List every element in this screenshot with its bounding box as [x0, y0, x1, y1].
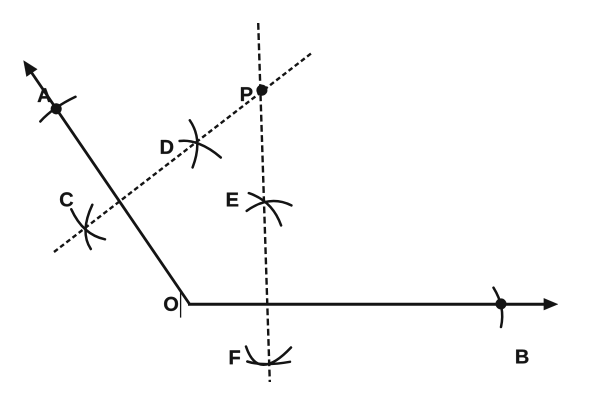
dashed diagonal line through C, D, P: [54, 52, 313, 252]
arc 2 at D (horizontal compass arc): [180, 141, 221, 158]
point A dot: [51, 103, 62, 114]
arc 1 at D (vertical compass arc): [190, 120, 198, 167]
ray OA (solid line from O up-left): [32, 73, 190, 305]
dashed vertical line through P, E, F: [258, 23, 270, 382]
label O: [164, 297, 178, 311]
arrowhead of ray OA: [24, 61, 38, 77]
label D: [161, 140, 173, 154]
label E: [227, 193, 238, 207]
label P: [241, 87, 252, 101]
label F: [230, 350, 240, 364]
caret tick at O: [180, 292, 182, 318]
arc 1 at E (upper-left to lower-right compass arc): [249, 193, 281, 225]
arrowhead of ray OB: [544, 298, 558, 310]
point on ray OB dot: [496, 299, 507, 310]
point P dot: [257, 85, 268, 96]
ray OB (solid horizontal line from O to right): [188, 303, 546, 306]
arc at A (compass arc crossing ray OA): [40, 97, 75, 122]
label B: [516, 350, 528, 364]
label A: [38, 88, 51, 102]
arc at B point (compass arc crossing ray OB): [494, 288, 503, 327]
arc 2 at E (lower-left to right compass arc): [247, 201, 292, 211]
arc 2 at F (shallow compass arc): [247, 362, 290, 365]
arc 2 at C (diagonal compass arc): [71, 209, 105, 239]
arc 1 at C (vertical compass arc): [86, 205, 93, 249]
arc 1 at F (deep smile compass arc): [246, 347, 291, 365]
label C: [60, 192, 73, 206]
